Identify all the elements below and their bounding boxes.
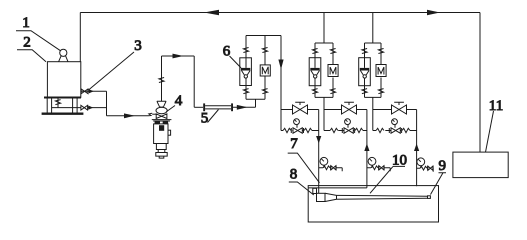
gauge on loop 2 bbox=[345, 119, 351, 128]
wire: upper outlet line bbox=[81, 90, 107, 92]
wire: loop 2 riser from test section bbox=[366, 110, 368, 188]
drain valve on tank bottom bbox=[55, 98, 60, 108]
flowmeter M3 bbox=[376, 65, 386, 77]
flowmeter M2 bbox=[328, 65, 338, 77]
svg-text:2: 2 bbox=[23, 35, 31, 51]
wire: loop 1 down to test section bbox=[318, 110, 320, 194]
label 11 bbox=[486, 98, 504, 152]
arrow: discharge flow bbox=[173, 54, 184, 59]
wire: lower outlet line bbox=[52, 107, 107, 109]
nozzle block bbox=[317, 193, 326, 201]
ground base bbox=[42, 112, 84, 114]
wire: assembly 1 bypass down bbox=[280, 36, 282, 131]
assembly 3 piping bbox=[365, 13, 382, 131]
flanged test pipe 5 bbox=[203, 103, 233, 111]
svg-text:11: 11 bbox=[489, 98, 503, 114]
wire: pump discharge riser bbox=[162, 56, 195, 107]
union on pump inlet bbox=[149, 113, 157, 116]
gauge on loop 1 bbox=[294, 119, 300, 128]
svg-text:8: 8 bbox=[290, 167, 298, 183]
valve: lower tank outlet bbox=[81, 105, 88, 110]
nozzle inlet fitting 8 bbox=[313, 188, 317, 193]
arrow: lower outlet flow bbox=[88, 106, 93, 110]
gauge assembly at tap 2 bbox=[367, 157, 390, 171]
arrow: upper outlet flow bbox=[89, 89, 94, 93]
tank legs bbox=[47, 98, 77, 113]
loop 1 top line bbox=[281, 109, 319, 111]
unions assembly 2 bbox=[312, 49, 335, 94]
label 6 bbox=[223, 44, 241, 68]
svg-text:1: 1 bbox=[22, 15, 30, 31]
unions assembly 1 bbox=[243, 48, 267, 94]
test tube 10 bbox=[337, 195, 431, 199]
tank 2 bbox=[44, 62, 81, 98]
rotameter 2 bbox=[309, 58, 321, 86]
label 4 bbox=[166, 93, 183, 112]
loop 2 bottom line with unions and needle valve bbox=[324, 128, 367, 133]
wire: header drop to tank bbox=[79, 13, 81, 62]
svg-text:7: 7 bbox=[290, 136, 298, 152]
unions assembly 3 bbox=[362, 49, 384, 94]
svg-text:3: 3 bbox=[134, 38, 142, 54]
label 7 bbox=[288, 136, 320, 183]
loop 1 bottom line with unions and needle valve bbox=[281, 128, 319, 133]
globe valve loop 1 bbox=[293, 102, 308, 114]
valve 3: upper tank outlet bbox=[81, 89, 88, 94]
nozzle cone bbox=[325, 193, 337, 201]
arrow: flow up from test section right bbox=[414, 144, 419, 152]
union on discharge riser bbox=[159, 78, 164, 83]
water bath tank bbox=[308, 186, 438, 222]
wire: inner connect line bbox=[308, 187, 367, 189]
label 1 bbox=[16, 15, 61, 51]
wire: inlet to assembly 1 bbox=[233, 99, 256, 107]
wire: header drop to box 11 bbox=[479, 13, 481, 153]
wire: loop 3 riser from test section bbox=[416, 110, 418, 187]
arrow: header flow to right bbox=[427, 10, 440, 16]
label 5 bbox=[201, 110, 219, 127]
arrow: flow down into test section bbox=[316, 136, 321, 144]
assembly 2 piping bbox=[315, 13, 333, 131]
assembly 1 piping bbox=[246, 36, 281, 100]
pump 4 bbox=[152, 101, 172, 158]
arrow: header flow to left bbox=[204, 10, 219, 16]
label 10 bbox=[370, 153, 407, 194]
svg-text:5: 5 bbox=[201, 111, 209, 127]
arrow: suction flow bbox=[124, 113, 135, 118]
globe valve loop 3 bbox=[392, 102, 407, 114]
stirrer motor 1 on tank bbox=[59, 49, 68, 62]
label 9 bbox=[431, 158, 447, 195]
label 3 bbox=[89, 38, 142, 90]
rotameter 6 bbox=[240, 58, 252, 86]
collection box 11 bbox=[453, 152, 508, 178]
arrow: flow up from test section bbox=[364, 144, 369, 152]
gauge on loop 3 bbox=[392, 119, 398, 128]
svg-text:6: 6 bbox=[223, 44, 231, 60]
gauge assembly at tap 1 bbox=[319, 157, 343, 171]
loop 3 top line bbox=[373, 109, 417, 111]
loop 2 top line bbox=[324, 109, 367, 111]
label 8 bbox=[289, 167, 314, 196]
svg-text:4: 4 bbox=[175, 93, 183, 109]
svg-text:9: 9 bbox=[439, 158, 447, 174]
rotameter 3 bbox=[359, 58, 371, 86]
arrow: inlet flow bbox=[237, 105, 248, 110]
gauge assembly at tap 3 bbox=[417, 158, 434, 172]
wire: line into flanged section bbox=[194, 106, 203, 108]
wire: top return header bbox=[80, 12, 480, 14]
loop 3 bottom line with unions and needle valve bbox=[373, 128, 417, 133]
arrow: bypass flow down bbox=[278, 60, 283, 70]
label 2 bbox=[17, 35, 46, 62]
wire: suction manifold to pump bbox=[107, 91, 149, 116]
globe valve loop 2 bbox=[342, 102, 357, 114]
flowmeter M1 bbox=[260, 65, 270, 76]
